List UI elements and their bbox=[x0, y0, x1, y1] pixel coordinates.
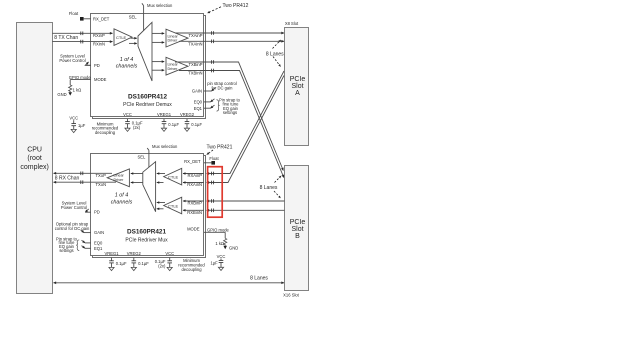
svg-text:TXoN: TXoN bbox=[96, 182, 107, 187]
svg-text:VCC: VCC bbox=[69, 116, 78, 121]
svg-text:(root: (root bbox=[27, 155, 41, 162]
series caps on CPU TX pair bbox=[81, 32, 83, 44]
svg-text:Slot: Slot bbox=[291, 226, 303, 233]
svg-text:0.1µF: 0.1µF bbox=[116, 261, 127, 266]
svg-text:EQ1: EQ1 bbox=[94, 246, 103, 251]
DS160PR412 main box bbox=[91, 14, 204, 117]
svg-text:GAIN: GAIN bbox=[192, 89, 202, 94]
svg-text:VREG2: VREG2 bbox=[180, 112, 195, 117]
svg-text:1µF: 1µF bbox=[210, 260, 218, 265]
svg-text:VREG2: VREG2 bbox=[127, 251, 142, 256]
CTLE amp B (PR421) bbox=[164, 197, 182, 214]
PCIe Slot B box bbox=[283, 166, 308, 298]
linear driver (PR421) bbox=[107, 169, 129, 187]
resistor R1 1 kOhm bbox=[69, 85, 82, 92]
demux to driver B wires bbox=[152, 61, 164, 63]
DS160PR421 main box bbox=[91, 154, 204, 256]
svg-text:PCIe Redriver Mux: PCIe Redriver Mux bbox=[125, 238, 168, 244]
svg-text:8 Lanes: 8 Lanes bbox=[260, 185, 278, 191]
svg-text:VCC: VCC bbox=[165, 251, 174, 256]
series caps on TXA/TXB pairs bbox=[212, 31, 214, 72]
svg-text:MODE: MODE bbox=[94, 77, 107, 82]
series caps on RXA pair bbox=[212, 172, 214, 185]
svg-text:PD: PD bbox=[94, 210, 100, 215]
second PR412 shadow box bbox=[93, 16, 206, 119]
EQ0 pin bbox=[194, 99, 215, 105]
pin wires into CTLEs bbox=[183, 173, 204, 175]
svg-text:Mux selection: Mux selection bbox=[152, 144, 178, 149]
svg-text:EQ0: EQ0 bbox=[94, 240, 103, 245]
svg-text:1 kΩ: 1 kΩ bbox=[73, 87, 82, 92]
series caps on CPU RX pair bbox=[81, 172, 83, 185]
Minimum recommended decoupling (PR421) bbox=[178, 258, 205, 272]
mux M2 (PR421) bbox=[143, 162, 156, 212]
svg-text:TXoP: TXoP bbox=[96, 173, 107, 178]
VREG2 pin + cap 0.1uF bbox=[180, 112, 202, 131]
svg-text:decoupling: decoupling bbox=[181, 267, 202, 272]
svg-text:CPU: CPU bbox=[27, 147, 42, 154]
VCC branch right (1uF, PR421) bbox=[210, 254, 225, 271]
CPU (root complex) box bbox=[17, 23, 53, 294]
GAIN pin (PR421) bbox=[55, 222, 104, 236]
CTLE amp A (PR421) bbox=[164, 168, 182, 185]
resistor R2 1 kOhm bbox=[215, 238, 226, 246]
GAIN pin with pin strap callout bbox=[192, 81, 237, 94]
svg-text:VCC: VCC bbox=[123, 112, 132, 117]
mux to driver wires bbox=[131, 173, 143, 175]
svg-text:GND: GND bbox=[229, 245, 238, 250]
svg-text:CTLE: CTLE bbox=[168, 203, 179, 208]
svg-text:RX_DET: RX_DET bbox=[93, 17, 110, 22]
svg-text:(2x): (2x) bbox=[158, 263, 166, 268]
VREG1 pin + cap (PR421) bbox=[104, 251, 126, 271]
SEL pin and Mux selection callout bbox=[129, 3, 173, 31]
svg-text:MODE: MODE bbox=[187, 227, 200, 232]
svg-text:Power Control: Power Control bbox=[61, 205, 87, 210]
series caps on RXB pair bbox=[212, 199, 214, 212]
second PR421 shadow box bbox=[93, 156, 206, 258]
svg-text:0.1µF: 0.1µF bbox=[191, 122, 202, 127]
svg-text:8 TX Chan: 8 TX Chan bbox=[54, 35, 78, 41]
svg-text:channels: channels bbox=[116, 64, 138, 70]
VCC branch left (1uF) bbox=[69, 116, 85, 133]
svg-text:complex): complex) bbox=[20, 164, 48, 171]
svg-text:TXBinP: TXBinP bbox=[188, 62, 202, 67]
demux to driver A wires bbox=[152, 32, 164, 34]
svg-text:1 kΩ: 1 kΩ bbox=[215, 241, 224, 246]
PCIe Slot A box bbox=[285, 21, 309, 146]
MODE pin, GPIO mode bbox=[69, 75, 107, 85]
svg-text:GND: GND bbox=[57, 92, 66, 97]
svg-text:(2x): (2x) bbox=[133, 125, 141, 130]
svg-text:SEL: SEL bbox=[138, 155, 146, 160]
svg-text:DS160PR412: DS160PR412 bbox=[128, 94, 168, 101]
svg-text:PCIe Redriver Demux: PCIe Redriver Demux bbox=[123, 102, 172, 108]
RX_DET pin U1 bbox=[69, 11, 110, 22]
wire TXoN to CPU bbox=[54, 182, 117, 187]
VCC pin bottom + cap 0.1uF (2x) bbox=[123, 112, 143, 131]
svg-text:RXinN: RXinN bbox=[93, 42, 105, 47]
svg-text:SEL: SEL bbox=[129, 15, 137, 20]
demux M1 bbox=[138, 22, 152, 81]
VREG2 pin + cap (PR421) bbox=[127, 251, 149, 271]
wire RXBinP from slot B bbox=[188, 201, 285, 206]
svg-text:RXinP: RXinP bbox=[93, 33, 105, 38]
bottom 8 Lanes wire CPU to Slot B bbox=[54, 276, 285, 283]
svg-text:Driver: Driver bbox=[114, 178, 125, 182]
svg-text:TXAinN: TXAinN bbox=[188, 41, 202, 46]
wire RXinN from CPU bbox=[52, 42, 112, 47]
svg-text:Slot: Slot bbox=[291, 83, 303, 90]
8 Lanes callout at Slot B bbox=[260, 176, 281, 198]
CTLE to demux wires bbox=[131, 37, 137, 39]
svg-text:TXBinN: TXBinN bbox=[188, 70, 202, 75]
TXBinN wire bbox=[179, 70, 284, 177]
svg-text:RX_DET: RX_DET bbox=[184, 159, 201, 164]
wire RXBinN from slot B bbox=[187, 210, 284, 215]
svg-text:X8 Slot: X8 Slot bbox=[285, 21, 299, 26]
EQ brace and label (PR421) bbox=[56, 236, 79, 252]
red highlight box around coupling caps bbox=[208, 167, 223, 218]
Two PR412 callout bbox=[208, 3, 249, 13]
PD pin with callout bbox=[59, 54, 99, 68]
8 Lanes callout at Slot A bbox=[266, 40, 284, 67]
wire RXA N bbox=[207, 76, 285, 183]
svg-text:channels: channels bbox=[111, 199, 133, 205]
TXAinP wire bbox=[175, 33, 284, 38]
VCC pin + cap 0.1uF (2x) (PR421) bbox=[155, 251, 174, 271]
svg-text:EQ1: EQ1 bbox=[194, 106, 203, 111]
svg-text:Two PR421: Two PR421 bbox=[207, 145, 233, 151]
svg-text:DS160PR421: DS160PR421 bbox=[127, 229, 167, 236]
svg-text:1 of 4: 1 of 4 bbox=[120, 57, 134, 63]
ground (GND) below R2 bbox=[223, 245, 238, 250]
VREG1 pin + cap 0.1uF bbox=[157, 112, 179, 131]
svg-text:Driver: Driver bbox=[168, 67, 179, 71]
CTLE amp A1 bbox=[114, 29, 132, 46]
svg-text:0.1µF: 0.1µF bbox=[168, 122, 179, 127]
ground (GND) below R1 bbox=[57, 92, 72, 97]
svg-text:EQ0: EQ0 bbox=[194, 100, 203, 105]
svg-text:X16 Slot: X16 Slot bbox=[283, 292, 300, 297]
linear driver A bbox=[166, 29, 188, 47]
svg-text:B: B bbox=[295, 233, 300, 240]
svg-text:A: A bbox=[295, 90, 300, 97]
svg-text:GAIN: GAIN bbox=[94, 230, 104, 235]
svg-text:8 Lanes: 8 Lanes bbox=[266, 51, 284, 57]
svg-text:VCC: VCC bbox=[217, 254, 226, 259]
PD pin (PR421) bbox=[61, 201, 100, 215]
Two PR421 callout bbox=[207, 145, 233, 155]
svg-text:VREG1: VREG1 bbox=[104, 251, 119, 256]
TXAinN wire bbox=[179, 41, 284, 46]
Minimum recommended decoupling (PR412) bbox=[92, 121, 119, 135]
svg-text:Driver: Driver bbox=[168, 39, 179, 43]
svg-text:TXAinP: TXAinP bbox=[188, 33, 202, 38]
svg-text:PD: PD bbox=[94, 63, 100, 68]
EQ1 pin (PR421) bbox=[82, 246, 103, 251]
svg-text:settings: settings bbox=[223, 110, 237, 115]
TXBinP wire bbox=[175, 62, 283, 171]
svg-text:Two PR412: Two PR412 bbox=[223, 3, 249, 9]
wire RXA P bbox=[207, 71, 285, 174]
EQ1 pin bbox=[194, 105, 215, 111]
svg-text:GPIO mode: GPIO mode bbox=[207, 228, 230, 233]
svg-text:VREG1: VREG1 bbox=[157, 112, 172, 117]
svg-text:0.1µF: 0.1µF bbox=[138, 261, 149, 266]
wire RXinP from CPU bbox=[52, 33, 112, 38]
MODE pin (PR421), GPIO mode bbox=[187, 227, 229, 239]
svg-text:Float: Float bbox=[209, 156, 219, 161]
svg-text:1 of 4: 1 of 4 bbox=[115, 193, 129, 199]
svg-text:CTLE: CTLE bbox=[116, 35, 127, 40]
svg-text:1µF: 1µF bbox=[78, 123, 86, 128]
EQ brace and label bbox=[217, 97, 241, 115]
RX_DET pin (PR421) bbox=[184, 156, 219, 165]
svg-text:PCIe: PCIe bbox=[290, 219, 306, 226]
EQ0 pin (PR421) bbox=[82, 240, 103, 245]
svg-text:control for DC gain: control for DC gain bbox=[55, 226, 90, 231]
Mux selection callout (PR421) bbox=[138, 144, 178, 168]
svg-text:Mux selection: Mux selection bbox=[147, 3, 173, 8]
svg-text:CTLE: CTLE bbox=[168, 175, 179, 180]
svg-text:Float: Float bbox=[69, 11, 79, 16]
svg-text:decoupling: decoupling bbox=[95, 130, 116, 135]
svg-text:8 Lanes: 8 Lanes bbox=[250, 276, 268, 282]
svg-text:8 RX Chan: 8 RX Chan bbox=[55, 175, 80, 181]
svg-text:Power Control: Power Control bbox=[59, 58, 85, 63]
linear driver B bbox=[166, 57, 188, 75]
CTLE outputs into mux bbox=[157, 173, 165, 175]
wire TXoP to CPU bbox=[54, 173, 113, 178]
svg-text:settings: settings bbox=[59, 248, 73, 253]
svg-text:PCIe: PCIe bbox=[290, 76, 306, 83]
